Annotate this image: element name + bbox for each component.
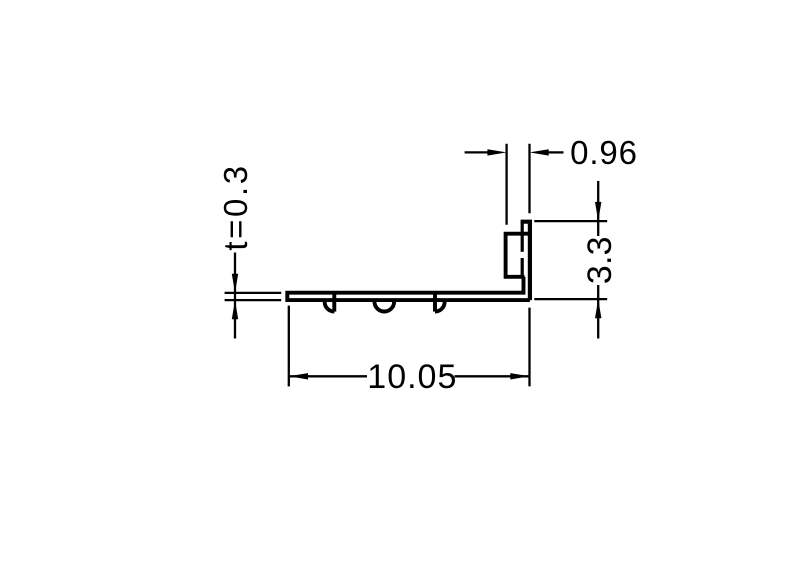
- svg-text:t=0.3: t=0.3: [217, 163, 254, 250]
- svg-text:10.05: 10.05: [367, 358, 457, 396]
- svg-text:3.3: 3.3: [581, 236, 619, 284]
- svg-text:0.96: 0.96: [570, 134, 638, 171]
